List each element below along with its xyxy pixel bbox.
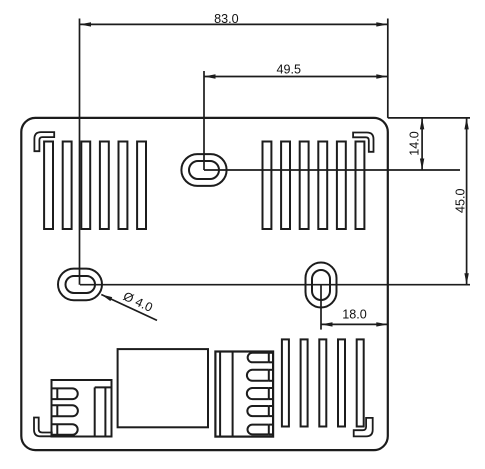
svg-text:18.0: 18.0	[342, 307, 367, 321]
svg-text:14.0: 14.0	[408, 131, 422, 156]
svg-text:45.0: 45.0	[453, 189, 467, 214]
svg-text:49.5: 49.5	[277, 62, 302, 76]
svg-text:83.0: 83.0	[214, 12, 239, 26]
